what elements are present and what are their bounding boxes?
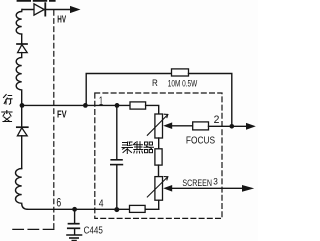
wire bbox=[21, 105, 23, 126]
wire bottom rail bbox=[28, 208, 130, 210]
label 行 (flyback) bbox=[4, 95, 13, 105]
wire bbox=[158, 165, 160, 177]
svg-text:FOCUS: FOCUS bbox=[186, 136, 215, 147]
wire riser to resistor R bbox=[86, 74, 171, 106]
label 焦 bbox=[134, 142, 143, 154]
svg-text:3: 3 bbox=[213, 177, 218, 187]
node junction dot (pin4 branch) bbox=[114, 207, 119, 212]
resistor (focus output series) bbox=[193, 122, 209, 130]
svg-text:2: 2 bbox=[214, 114, 220, 126]
label 聚 bbox=[122, 142, 133, 154]
node junction dot (C445) bbox=[72, 207, 77, 212]
resistor (bottom series) bbox=[130, 205, 146, 212]
resistor R 10M 0.5W bbox=[172, 69, 189, 76]
wire screen pot to bottom rail bbox=[158, 200, 160, 209]
svg-text:FV: FV bbox=[57, 109, 67, 120]
label 变 (transformer) bbox=[2, 111, 12, 122]
HV output arrow bbox=[70, 6, 81, 13]
focus output arrow bbox=[246, 123, 256, 130]
screen output arrow bbox=[242, 185, 254, 192]
svg-text:10M 0.5W: 10M 0.5W bbox=[168, 79, 198, 90]
wire bbox=[21, 34, 23, 43]
resistor (divider middle) bbox=[155, 149, 162, 165]
node junction dot (cap branch) bbox=[115, 103, 120, 108]
wire to focus pot bbox=[146, 105, 159, 114]
dashed boundary flyback (top edge, clipped) bbox=[18, 0, 55, 2]
wiper arrow screen bbox=[163, 185, 172, 192]
label 器 bbox=[144, 142, 154, 153]
resistor (FV rail series) bbox=[130, 102, 146, 109]
potentiometer FOCUS bbox=[147, 114, 168, 138]
diode D3 (in winding, cathode up) bbox=[17, 127, 28, 136]
svg-text:R: R bbox=[152, 78, 158, 89]
flyback winding L2 bbox=[16, 53, 22, 103]
node junction dot (riser to R) bbox=[83, 103, 88, 108]
wire from R to focus output node bbox=[189, 74, 232, 127]
dashed boundary focus unit bbox=[95, 93, 222, 218]
wiper arrow focus bbox=[163, 122, 172, 129]
diode D1 (series in HV lead, pointing right) bbox=[34, 3, 45, 15]
flyback winding L1 (top) bbox=[16, 10, 22, 35]
node FV junction dot bbox=[20, 103, 25, 108]
diode D2 (in winding, cathode up) bbox=[17, 44, 27, 53]
svg-text:SCREEN: SCREEN bbox=[182, 177, 212, 188]
svg-text:4: 4 bbox=[99, 199, 104, 210]
svg-text:6: 6 bbox=[56, 195, 61, 209]
wire focus output bbox=[209, 125, 247, 127]
svg-text:HV: HV bbox=[57, 13, 66, 25]
wire bbox=[145, 208, 159, 210]
flyback winding L3 (bottom) bbox=[15, 169, 27, 210]
svg-text:1: 1 bbox=[99, 94, 103, 108]
ground bbox=[67, 235, 82, 241]
capacitor (focus unit internal) bbox=[111, 108, 123, 207]
capacitor C445 bbox=[68, 211, 80, 234]
dashed boundary flyback transformer bbox=[53, 11, 55, 230]
wire pot to resistor bbox=[158, 138, 160, 149]
wire bbox=[21, 136, 23, 169]
svg-text:C445: C445 bbox=[84, 226, 103, 237]
node junction dot focus/R bbox=[230, 124, 235, 129]
wire HV top horizontal bbox=[22, 9, 72, 11]
wire main FV rail bbox=[22, 104, 130, 106]
potentiometer SCREEN bbox=[147, 177, 168, 201]
